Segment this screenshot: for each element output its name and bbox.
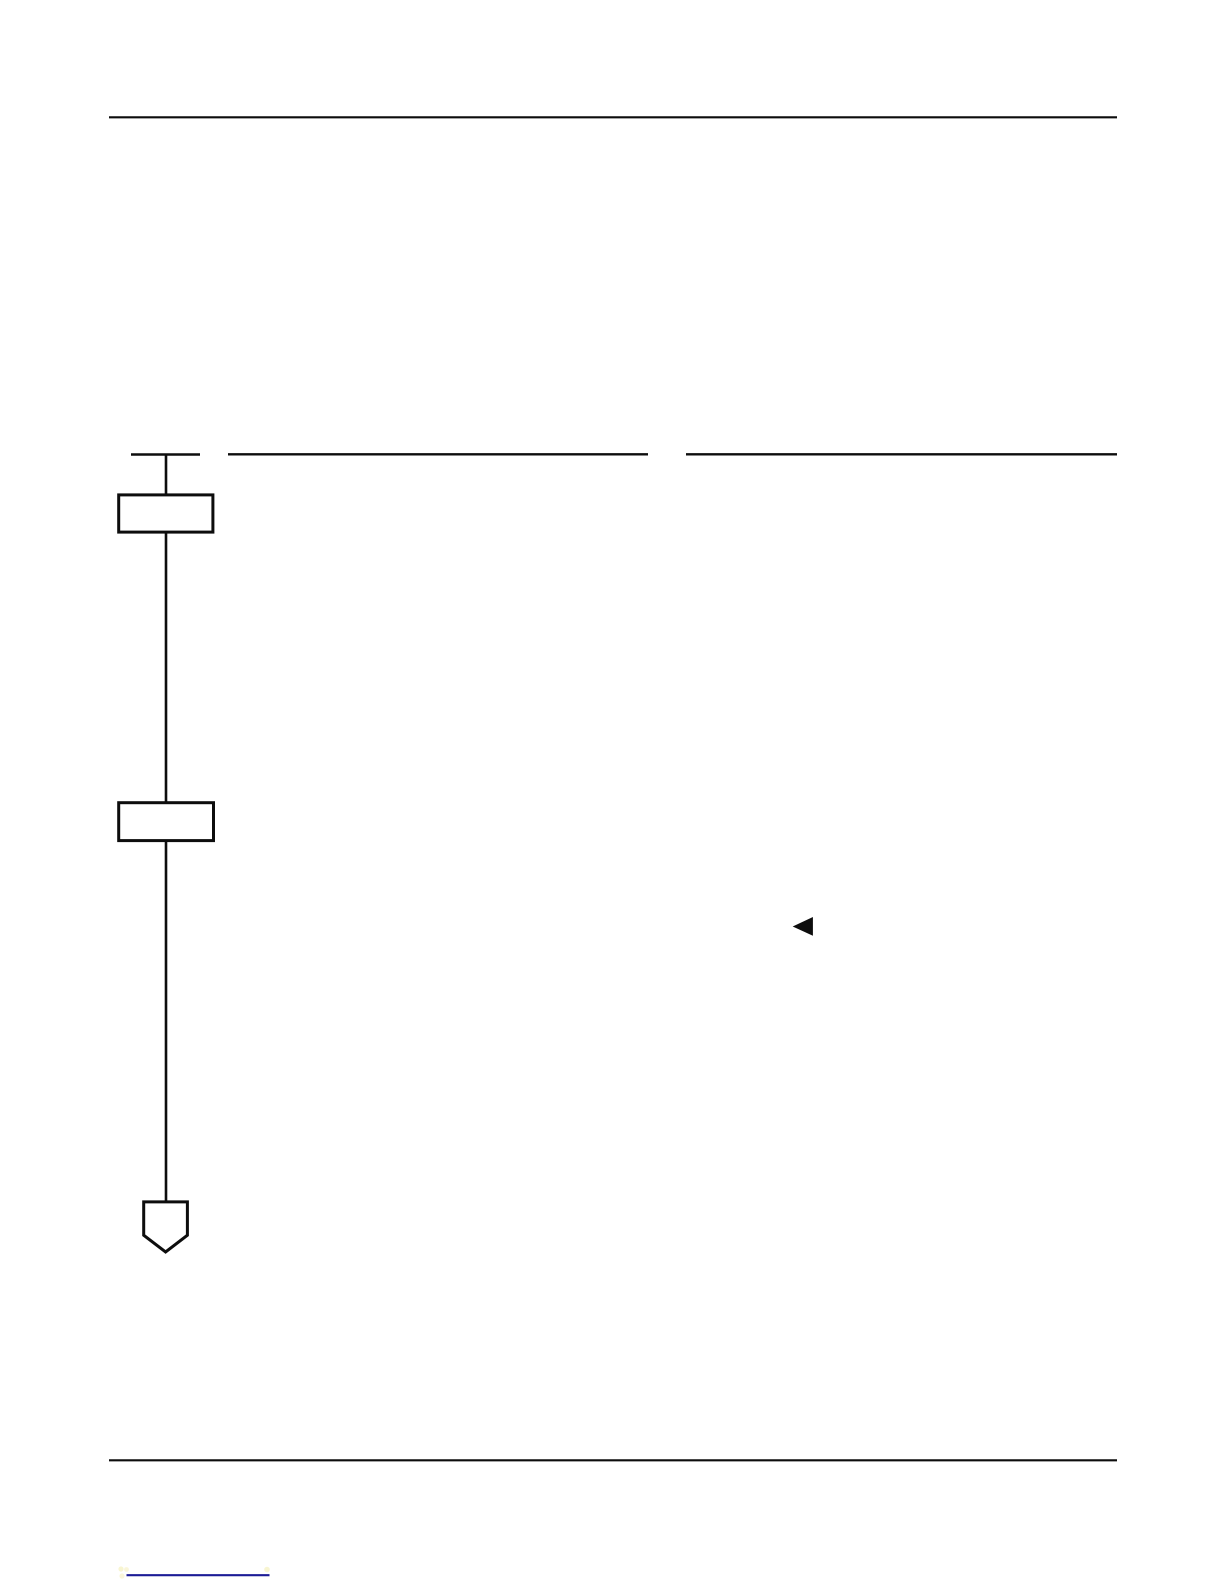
bottom footer rule xyxy=(109,1459,1117,1461)
top header rule xyxy=(109,116,1117,118)
left column header line xyxy=(228,453,648,455)
faint highlight mark right of link underline xyxy=(264,1567,270,1573)
faint highlight mark left of link underline xyxy=(118,1566,128,1578)
right column header line xyxy=(686,453,1117,455)
vertical flow line xyxy=(165,455,168,1202)
off-page connector (pentagon) xyxy=(144,1202,188,1252)
change bar marker (left-pointing triangle) xyxy=(793,917,813,936)
hyperlink underline (blue) xyxy=(127,1574,270,1576)
process box 2 xyxy=(119,803,214,841)
process box 1 xyxy=(119,495,213,532)
flowchart start tab line xyxy=(131,453,200,455)
